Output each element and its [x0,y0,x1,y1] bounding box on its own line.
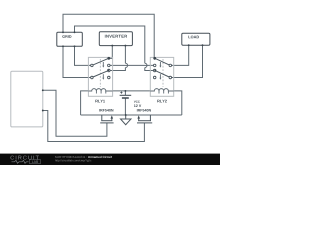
footer watermark bar [0,154,220,165]
subcircuit box (left controller) [11,71,43,127]
GRID source box [57,32,83,46]
wire main bottom bus [81,114,182,116]
battery VCC 12V [120,92,132,99]
relay RLY1 arrows [102,62,104,80]
LOAD box [182,33,210,45]
wire LOAD pin1 to RLY2 common1 [172,45,189,65]
relay RLY2 arrows [159,62,161,80]
relay RLY2 coil [150,89,173,94]
wire coil bus RLY1 to RLY2 with battery tap [113,90,151,92]
wire left box pin2 to Q2 gate [43,111,145,142]
relay RLY2 actuation dashed link [162,59,164,87]
relay RLY1 NC contact beads [107,57,110,60]
junction and pin dots [42,31,204,116]
wire GRID bottom pin2 to RLY1 common1 [75,46,91,65]
relay RLY1 terminals [91,64,110,79]
relay RLY1 switch arms [93,59,108,77]
ground [121,115,132,125]
wire GRID bottom pin1 to RLY1 common2 [63,46,91,77]
wire INVERTER pin1 to RLY1 pole1 NC [110,46,113,59]
relay RLY1 label [95,100,105,103]
wire hop on vertical x=144.8 [145,63,147,67]
transistor Q2 IRF540N [137,115,152,123]
relay RLY1 coil [88,89,112,94]
INVERTER box [99,32,132,46]
relay RLY2 NC contact beads [153,57,156,60]
wire RLY1 coil left to Q1 drain / bus [81,91,89,115]
wire LOAD pin2 to RLY2 common2 [172,45,203,77]
relay RLY2 switch arms [156,59,170,77]
relay RLY2 label [157,100,167,103]
wire RLY1 pole1 NO to RLY2 pole1 NO [110,64,154,66]
wire battery bottom lead [124,98,126,115]
wire INVERTER pin2 to RLY1 pole2 NC (with hop) [110,46,125,71]
wire left box pin1 to Q1 gate [43,90,107,136]
wire battery top lead [124,91,126,95]
relay RLY1 actuation dashed link [99,59,101,87]
wire RLY2 coil right down to bus [174,91,182,115]
relay RLY2 body [150,57,173,96]
wire GRID top pin2 to RLY2 pole2 NC (with hop over pole1 bus) [75,26,154,71]
wire GRID top pin1 to RLY2 NC contact [63,14,154,58]
relay RLY1 body [88,57,112,96]
transistor Q1 IRF540N [100,115,113,123]
wire hop on vertical x=125.4 [125,63,127,67]
relay RLY2 terminals [153,64,171,79]
